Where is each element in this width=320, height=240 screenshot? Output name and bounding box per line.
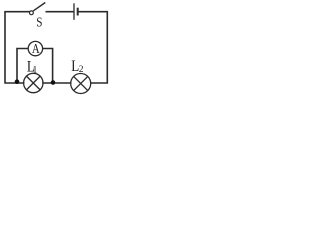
svg-text:A: A [32, 41, 40, 56]
svg-text:S: S [36, 15, 42, 30]
svg-text:1: 1 [32, 65, 37, 76]
svg-text:2: 2 [79, 65, 84, 75]
